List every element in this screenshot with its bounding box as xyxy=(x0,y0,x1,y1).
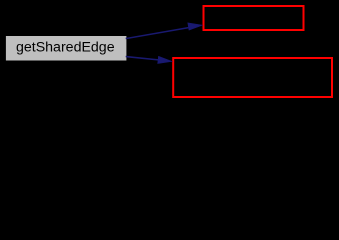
node (truncated) top xyxy=(204,6,304,30)
arrowhead bottom xyxy=(158,56,172,63)
svg-text:getSharedEdge: getSharedEdge xyxy=(16,40,115,56)
arrowhead top xyxy=(188,23,202,30)
node getSharedEdge xyxy=(6,36,127,61)
edge wire to bottom node xyxy=(126,57,159,60)
node (truncated) bottom xyxy=(173,58,332,97)
edge wire to top node xyxy=(126,28,189,39)
